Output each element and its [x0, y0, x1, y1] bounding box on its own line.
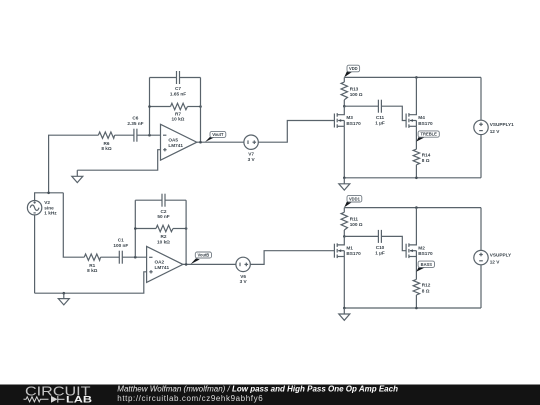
svg-text:100 Ω: 100 Ω	[350, 222, 363, 227]
wire V2 bottom vertical	[34, 215, 36, 293]
node VDD1 flag	[344, 195, 362, 207]
node M2 drain rail junction	[415, 206, 418, 209]
svg-text:10 kΩ: 10 kΩ	[157, 240, 170, 245]
resistor R12	[413, 279, 431, 295]
svg-text:10 kΩ: 10 kΩ	[172, 117, 185, 122]
svg-text:3 V: 3 V	[248, 157, 256, 162]
svg-text:C10: C10	[376, 245, 385, 250]
node VoutT flag	[205, 131, 226, 142]
svg-text:TREBLE: TREBLE	[421, 132, 438, 137]
wire R7 row left lead	[150, 106, 171, 108]
svg-text:LM741: LM741	[168, 143, 183, 148]
ground (OA5 non-inverting)	[72, 170, 83, 182]
node M1 source rail junction	[343, 307, 346, 310]
wire junction to C11	[344, 105, 378, 107]
wire R2 row left lead	[135, 228, 156, 230]
svg-text:VoutB: VoutB	[198, 253, 210, 258]
wire R13 bottom lead	[343, 100, 345, 106]
svg-text:BS170: BS170	[418, 121, 433, 126]
svg-text:1 µF: 1 µF	[375, 251, 385, 256]
transistor M1 BS170	[334, 236, 361, 258]
svg-text:VDD1: VDD1	[349, 196, 361, 201]
op-amp OA2	[147, 246, 183, 282]
svg-text:R6: R6	[104, 141, 110, 146]
wire C6 to OA5 inverting input	[137, 134, 161, 136]
svg-text:M3: M3	[346, 115, 353, 120]
svg-text:R14: R14	[422, 152, 431, 157]
svg-text:VSUPPLY: VSUPPLY	[490, 252, 512, 257]
wire bottom rail (treble)	[344, 177, 481, 179]
resistor R2	[156, 225, 173, 244]
wire feedback right vertical to output	[200, 78, 202, 143]
svg-text:100 Ω: 100 Ω	[350, 92, 363, 97]
node VoutB flag	[191, 252, 212, 264]
svg-text:8 kΩ: 8 kΩ	[87, 268, 98, 273]
node BASS flag	[416, 261, 434, 272]
svg-text:R11: R11	[350, 217, 359, 222]
svg-text:C11: C11	[376, 115, 385, 120]
wire feedback left vertical	[134, 200, 136, 257]
ground (treble stage)	[339, 178, 350, 190]
wire R11 top lead	[343, 208, 345, 213]
svg-text:1 µF: 1 µF	[375, 120, 385, 125]
svg-text:1.65 nF: 1.65 nF	[170, 91, 186, 96]
resistor R7	[171, 103, 188, 121]
svg-text:LAB: LAB	[66, 395, 92, 405]
resistor R14	[413, 149, 431, 165]
node M1 drain junction	[343, 235, 346, 238]
node M3 source rail junction	[343, 177, 346, 180]
capacitor C6	[127, 116, 143, 142]
svg-text:M4: M4	[418, 115, 425, 120]
svg-text:8 Ω: 8 Ω	[422, 288, 430, 293]
svg-text:M1: M1	[346, 245, 353, 250]
node R12 rail junction	[415, 307, 418, 310]
wire R14 bottom lead	[415, 165, 417, 178]
node VDD flag	[344, 65, 359, 77]
node M4 drain rail junction	[415, 76, 418, 79]
wire V7 to M3 gate	[258, 121, 334, 143]
node R2 right junction	[185, 227, 188, 230]
FOOTER	[0, 384, 540, 405]
svg-text:R7: R7	[175, 111, 181, 116]
capacitor C7	[170, 71, 186, 96]
wire M3 source to bottom rail	[343, 126, 345, 178]
svg-text:50 nF: 50 nF	[157, 214, 169, 219]
svg-text:R2: R2	[161, 234, 167, 239]
resistor R13	[341, 82, 363, 100]
svg-text:8 kΩ: 8 kΩ	[101, 146, 112, 151]
wire R12 bottom lead	[415, 295, 417, 308]
wire OA2 output to V6	[183, 263, 236, 265]
wire feedback right vertical to output	[185, 200, 187, 264]
svg-text:OA5: OA5	[168, 138, 178, 143]
wire OA2 + input down to ground rail	[35, 272, 147, 293]
svg-text:1 kHz: 1 kHz	[44, 211, 57, 216]
svg-text:2.35 nF: 2.35 nF	[127, 121, 143, 126]
node R2 left junction	[134, 227, 137, 230]
svg-text:Matthew Wolfman (mwolfman) / L: Matthew Wolfman (mwolfman) / Low pass an…	[117, 384, 398, 393]
wire M1 source to bottom rail	[343, 257, 345, 309]
wire R2 right lead	[173, 228, 186, 230]
wire right rail top (bass)	[480, 208, 482, 251]
svg-text:http://circuitlab.com/cz9ehk9a: http://circuitlab.com/cz9ehk9abhfy6	[117, 394, 263, 403]
node M3 drain junction	[343, 105, 346, 108]
node TREBLE flag	[416, 131, 439, 142]
wire V2 top row	[35, 193, 64, 201]
wire input vertical from V2 node up to R6 row	[49, 135, 99, 193]
node R14 rail junction	[415, 177, 418, 180]
wire OA5 output to V7	[197, 141, 244, 143]
node ground rail junction	[63, 292, 66, 295]
voltage source VSUPPLY1 12V	[474, 120, 514, 134]
svg-text:BASS: BASS	[421, 262, 433, 267]
transistor M4 BS170	[406, 77, 433, 128]
wire V6 to M1 gate	[250, 251, 334, 265]
resistor R6	[98, 132, 114, 151]
wire VDD top rail	[344, 76, 481, 78]
svg-text:R12: R12	[422, 283, 431, 288]
wire C2 to right vertical	[165, 199, 186, 201]
node OA2 output junction	[185, 263, 188, 266]
wire junction to C10	[344, 235, 378, 237]
svg-text:8 Ω: 8 Ω	[422, 158, 430, 163]
node R7 right junction	[199, 105, 202, 108]
wire C11 to M4 gate	[381, 106, 406, 120]
wire R13 top lead	[343, 77, 345, 82]
svg-text:OA2: OA2	[155, 260, 165, 265]
wire R1 to C1	[101, 256, 120, 258]
transistor M2 BS170	[406, 208, 433, 259]
wire C1 to OA2 inverting input	[122, 256, 146, 258]
svg-text:BS170: BS170	[346, 251, 361, 256]
resistor R1	[84, 254, 100, 273]
svg-text:12 V: 12 V	[490, 259, 501, 264]
capacitor C1	[113, 238, 128, 264]
wire C7 to right vertical	[180, 77, 201, 79]
node C6/feedback junction	[148, 134, 151, 137]
svg-text:VoutT: VoutT	[212, 132, 224, 137]
wire right rail bottom (bass)	[480, 265, 482, 308]
svg-text:V7: V7	[248, 152, 254, 157]
svg-text:12 V: 12 V	[490, 129, 501, 134]
svg-text:VSUPPLY1: VSUPPLY1	[490, 122, 514, 127]
svg-text:M2: M2	[418, 245, 425, 250]
wire down to R1 row	[63, 193, 84, 257]
wire R7 right lead	[188, 106, 201, 108]
voltage source VSUPPLY 12V	[474, 250, 512, 264]
node R7 left junction	[148, 105, 151, 108]
wire right rail top (treble)	[480, 77, 482, 120]
wire OA5 + input to ground	[77, 150, 160, 171]
svg-text:BS170: BS170	[418, 251, 433, 256]
voltage source V7 3V	[244, 135, 258, 162]
wire M4 source to R14	[415, 126, 417, 149]
capacitor C10	[375, 230, 385, 256]
node V2 top junction	[47, 192, 50, 195]
wire M2 source to R12	[415, 257, 417, 280]
wire C10 to M2 gate	[381, 236, 406, 250]
wire feedback left vertical	[149, 78, 151, 136]
voltage source V2 sine 1kHz	[27, 200, 57, 215]
svg-text:R13: R13	[350, 86, 359, 91]
wire R11 bottom lead	[343, 230, 345, 236]
wire feedback top (C7 row)	[150, 77, 177, 79]
ground (main rail)	[58, 293, 69, 305]
voltage source V6 3V	[236, 257, 250, 284]
svg-text:3 V: 3 V	[240, 279, 248, 284]
resistor R11	[341, 212, 363, 230]
svg-text:VDD: VDD	[349, 66, 358, 71]
op-amp OA5	[161, 124, 197, 160]
capacitor C11	[375, 100, 385, 126]
wire feedback top (C2 row)	[135, 199, 162, 201]
wire VDD1 top rail	[344, 207, 481, 209]
ground (bass stage)	[339, 308, 350, 320]
svg-text:LM741: LM741	[155, 265, 170, 270]
node OA5 output junction	[199, 141, 202, 144]
transistor M3 BS170	[334, 106, 361, 128]
wire R6 to C6	[115, 134, 134, 136]
capacitor C2	[157, 194, 169, 219]
wire bottom rail (bass)	[344, 307, 481, 309]
svg-text:BS170: BS170	[346, 121, 361, 126]
wire right rail bottom (treble)	[480, 135, 482, 178]
svg-text:100 nF: 100 nF	[113, 243, 128, 248]
svg-text:V6: V6	[240, 274, 246, 279]
node C1/feedback junction	[134, 256, 137, 259]
svg-text:R1: R1	[89, 263, 95, 268]
